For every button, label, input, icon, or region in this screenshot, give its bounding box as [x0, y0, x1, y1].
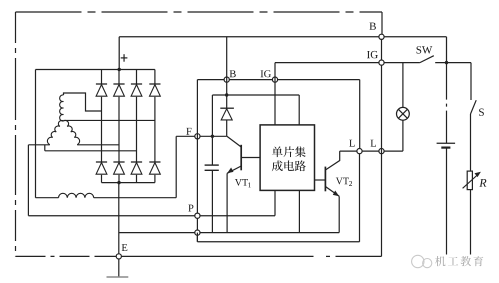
wire SW output [435, 62, 471, 64]
IG vehicle label [367, 51, 370, 58]
wire phase U to diode col1 [64, 93, 102, 111]
chain border corner down to B [381, 12, 383, 35]
wire S branch [470, 63, 472, 100]
diode VD7 bottom row [131, 161, 142, 163]
wire + vertical [118, 37, 120, 70]
wire P sense line [28, 215, 275, 217]
wire L line [340, 150, 403, 152]
resistor R arrow [463, 174, 479, 189]
IC pin IG lead [274, 63, 276, 125]
junction F capacitor [211, 135, 214, 138]
wire B+ from rectifier to terminal B [119, 36, 379, 38]
wire ground lead [118, 259, 120, 277]
diode VD8 bottom row [149, 161, 160, 163]
wire E line left [95, 255, 116, 257]
wire S to R [470, 114, 472, 171]
R label [479, 179, 486, 187]
switch SW blade [420, 56, 434, 63]
rotor field coil [58, 193, 93, 197]
resistor R body [467, 171, 472, 190]
terminal L regulator [357, 149, 362, 154]
F label [186, 128, 191, 135]
generator enclosure chain border top [16, 11, 383, 13]
wire internal B line [212, 94, 299, 96]
wire field left vertical [35, 70, 37, 198]
wire connector vertical F-P [196, 80, 198, 242]
VT2 emitter lead down [338, 196, 340, 232]
wire ground rail [119, 232, 339, 234]
SW label [417, 46, 422, 53]
wire phase V jog [44, 145, 46, 151]
terminal L vehicle [379, 149, 384, 154]
+ label [121, 57, 128, 59]
VT1 emitter [227, 166, 241, 173]
wire L to E bottom [336, 255, 382, 257]
junction B net [225, 93, 228, 96]
charge indicator lamp HL [397, 107, 410, 120]
wire field coil left lead [36, 197, 59, 199]
wire L return loop [196, 233, 198, 242]
stator phase U coil [60, 95, 64, 121]
transistor VT1 base bar [240, 145, 242, 171]
wire battery negative [446, 148, 448, 255]
IC pin P lead [274, 190, 276, 215]
wire star point to diode col4 [64, 119, 155, 121]
IC pin B lead [298, 95, 300, 125]
VT2 collector [325, 151, 339, 170]
diode VD5 bottom row [96, 161, 107, 163]
wire capacitor top lead [211, 95, 213, 165]
wire battery chain [446, 63, 448, 144]
VT2 emitter [325, 187, 339, 197]
wire phase V left [28, 144, 49, 146]
wire IG to switch [275, 62, 379, 64]
wire vehicle harness vertical [381, 39, 383, 256]
terminal F [195, 134, 200, 139]
wire capacitor bottom lead [211, 170, 213, 232]
wire F line [176, 135, 226, 137]
diode VD1 top row [101, 70, 103, 85]
S label [479, 109, 484, 116]
stator phase V coil [47, 120, 63, 144]
wire rail corner down to L [359, 80, 361, 152]
capacitor C plates [205, 164, 219, 166]
wire field coil right lead [94, 197, 177, 199]
wire B to battery branch [384, 36, 446, 38]
wire phase tap to P [27, 145, 29, 216]
transistor VT2 base bar [324, 167, 326, 192]
VT2 base lead [315, 179, 326, 181]
wire lamp bottom [402, 120, 404, 151]
terminal B vehicle [379, 34, 384, 39]
watermark text 机工教育 [435, 256, 445, 266]
watermark logo [412, 255, 424, 267]
wire R bottom [470, 190, 472, 255]
VT1 label [235, 179, 242, 186]
VT1 emitter lead down [226, 173, 228, 232]
terminal B regulator [224, 77, 229, 82]
wire E vertical [118, 183, 120, 254]
stator phase W coil [64, 120, 80, 144]
VT2 label [336, 178, 343, 185]
IC text line1 单片集 [272, 146, 283, 157]
IC pin E lead [298, 190, 300, 232]
wire regulator supply rail [197, 79, 359, 81]
terminal IG regulator [272, 77, 277, 82]
wire B vertical into regulator [226, 37, 228, 95]
junction negative bus [117, 181, 120, 184]
terminal P [195, 213, 200, 218]
wire field up to F [175, 136, 177, 197]
terminal IG vehicle [379, 60, 384, 65]
junction battery branch [445, 61, 448, 64]
terminal E regulator [195, 230, 200, 235]
IC text line2 成电路 [272, 160, 283, 171]
IG regulator label [261, 70, 264, 77]
flyback diode VD9 [226, 95, 228, 108]
B regulator label [230, 70, 236, 77]
wire phase W to diode col2 [77, 144, 119, 146]
B vehicle label [369, 23, 375, 30]
ground symbol [107, 276, 129, 278]
battery GB plates [437, 142, 456, 144]
op-amp IC box U1 [260, 125, 314, 190]
VT1 collector [226, 136, 241, 147]
diode VD4 top row [154, 70, 156, 85]
diode VD2 top row [118, 70, 120, 85]
switch S blade [471, 100, 477, 114]
diode VD6 bottom row [113, 161, 124, 163]
terminal E [116, 254, 121, 259]
L regulator label [349, 140, 354, 147]
E label [122, 244, 128, 251]
junction + rail [118, 68, 121, 71]
wire lamp top [402, 63, 404, 108]
L vehicle label [371, 140, 376, 147]
wire negative bus [102, 182, 155, 184]
wire positive rail [36, 69, 155, 71]
generator enclosure chain border bottom-left [16, 255, 96, 257]
VT1 base lead [241, 157, 260, 159]
P label [188, 205, 193, 212]
generator enclosure chain border left [15, 12, 17, 256]
diode VD3 top row [136, 70, 138, 85]
